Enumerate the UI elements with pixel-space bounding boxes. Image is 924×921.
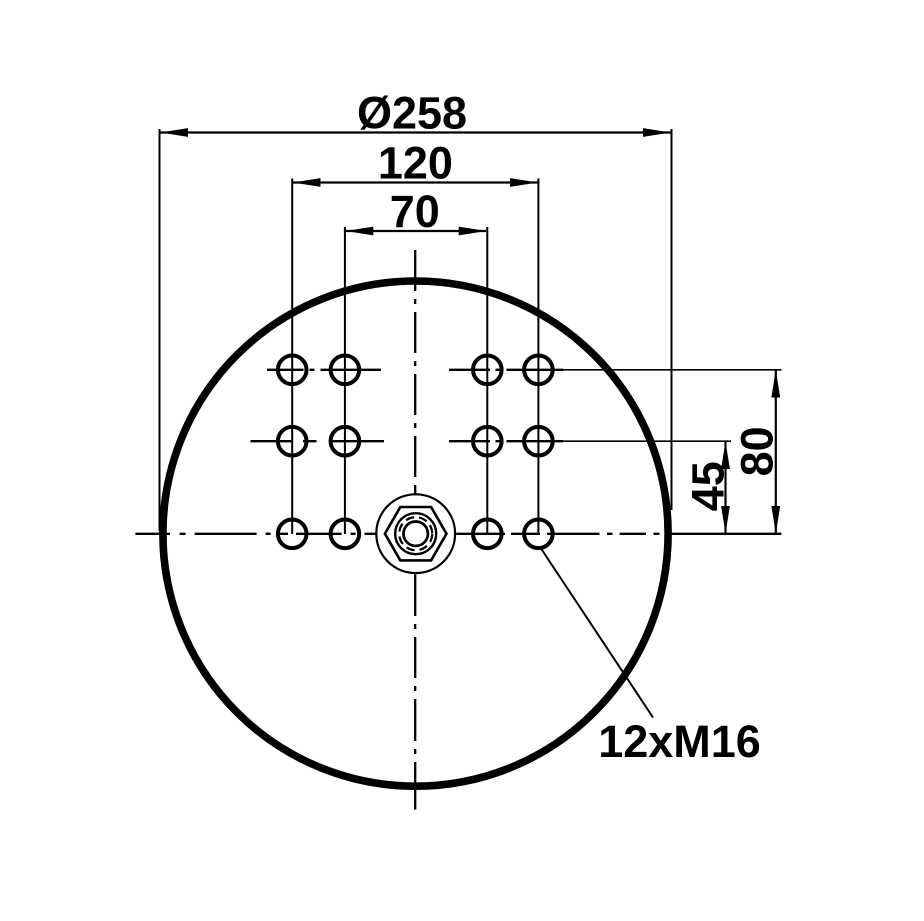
svg-text:80: 80: [731, 426, 782, 476]
svg-text:Ø258: Ø258: [357, 88, 467, 139]
svg-text:12xM16: 12xM16: [598, 716, 761, 767]
svg-text:70: 70: [390, 186, 440, 237]
svg-text:120: 120: [378, 138, 453, 189]
svg-text:45: 45: [683, 461, 734, 511]
